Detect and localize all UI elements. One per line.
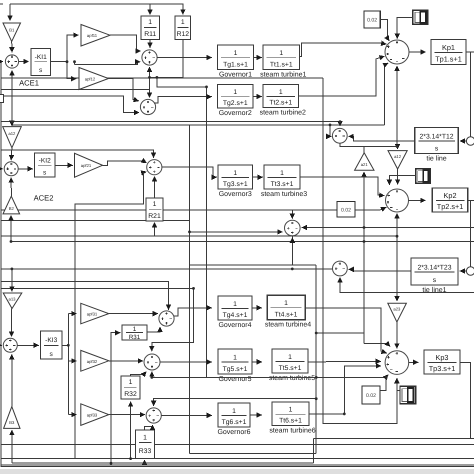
governor block Governor2	[218, 85, 254, 118]
wire R32 input from bus	[130, 402, 132, 459]
gain a21	[355, 153, 374, 171]
junction at 316.2,398.7	[315, 397, 318, 400]
gain a23	[388, 303, 407, 322]
svg-text:1: 1	[129, 379, 133, 386]
junction at 74.5,61.7	[73, 60, 76, 63]
svg-text:steam turbine2: steam turbine2	[260, 109, 306, 117]
wire bus y150.2 to sum unit3 top	[1, 150, 154, 158]
svg-text:Tp1.s+1: Tp1.s+1	[435, 54, 462, 63]
wire bus y77.9	[1, 77, 323, 79]
constant 0.02 load area3	[362, 386, 380, 404]
svg-text:-KI1: -KI1	[35, 54, 47, 61]
junction at 68.3,345.3	[67, 344, 70, 347]
droop block 1/R32	[121, 376, 140, 399]
svg-text:Tt1.s+1: Tt1.s+1	[270, 61, 293, 68]
bottom gray strip	[0, 469, 474, 474]
wire turbine4 output to sum3R	[305, 308, 387, 353]
svg-text:R32: R32	[124, 391, 137, 398]
wire Governor3 to turbine3	[253, 176, 263, 178]
wire bus y209.8	[1, 209, 381, 211]
svg-text:Governor3: Governor3	[219, 191, 252, 198]
svg-text:1: 1	[233, 89, 237, 96]
wire bus y124.9	[12, 124, 385, 126]
wire left edge vertical	[0, 62, 2, 467]
junction at 151.8,377.4	[150, 376, 153, 379]
sum junction unit1	[142, 50, 157, 65]
svg-text:Tg2.s+1: Tg2.s+1	[223, 100, 248, 107]
wire port to tie line1 block	[460, 270, 467, 272]
svg-text:1: 1	[279, 50, 283, 57]
wire bottom bus y453.6	[190, 453, 317, 455]
gain apf11	[81, 25, 110, 47]
sum junction area3 ACE	[3, 338, 17, 352]
svg-text:Tp2.s+1: Tp2.s+1	[437, 202, 464, 211]
wire left input sum3a	[0, 344, 3, 346]
wire bus y281.3 to sum4 top	[1, 281, 169, 310]
governor block Governor1	[218, 45, 254, 79]
wire right input summid y227.5	[302, 227, 474, 229]
junction at 156.9,77.4	[156, 76, 159, 79]
svg-text:1: 1	[289, 407, 293, 414]
droop block 1/R11	[141, 16, 160, 40]
wire tie feedback x397 up into sum1R bottom	[396, 66, 398, 146]
svg-text:1: 1	[284, 300, 288, 307]
wire tie-sum1 output down-right	[340, 143, 398, 146]
svg-text:-KI2: -KI2	[39, 157, 51, 164]
sum junction unit2	[140, 99, 155, 114]
sum junction tie flow 1	[332, 128, 347, 143]
svg-text:1: 1	[133, 326, 137, 333]
svg-text:1: 1	[288, 354, 292, 361]
wire R31 input	[111, 333, 120, 464]
wire a13 to sum3a	[11, 309, 13, 337]
wire 0.02 to sum1R	[380, 20, 389, 41]
sum junction tie flow 2	[333, 261, 348, 276]
wire R33 output to sum6	[145, 425, 153, 430]
svg-text:Tt6.s+1: Tt6.s+1	[279, 417, 302, 424]
wire a23 output to sum3R	[396, 322, 398, 349]
wire bus up into sum2R bottom	[396, 214, 398, 237]
svg-text:steam turbine1: steam turbine1	[260, 71, 306, 79]
wire arrow into R12	[182, 4, 184, 15]
wire vertical x313.5 bottom	[313, 438, 315, 463]
input port circle tie2	[466, 267, 474, 275]
svg-text:tie line: tie line	[426, 155, 446, 163]
svg-text:0.02: 0.02	[341, 207, 351, 213]
svg-text:2*3.14*T12: 2*3.14*T12	[420, 133, 454, 140]
wire scope tap to sum1R top	[397, 17, 413, 38]
wire port to tie line block	[460, 140, 467, 142]
junction at 316.2,377.4	[315, 376, 318, 379]
svg-text:apf11: apf11	[87, 33, 98, 38]
sum junction tie area2	[285, 220, 301, 236]
wire top feedback bus y4	[10, 3, 183, 5]
power system block Kp2/Tp2	[432, 188, 468, 212]
droop block 1/R21	[146, 198, 163, 221]
wire bottom bus y437.7	[314, 437, 474, 439]
junction at 11,241.5	[10, 240, 13, 243]
svg-text:R12: R12	[177, 31, 190, 38]
wire R11 to sum1b top	[149, 40, 151, 48]
svg-text:a23: a23	[393, 307, 401, 312]
junction at 330,124.9	[329, 124, 332, 127]
wire Governor2 to turbine2	[253, 96, 262, 98]
svg-text:Kp3: Kp3	[436, 353, 449, 362]
junction at 193.5,288.4	[192, 287, 195, 290]
governor block Governor3	[218, 165, 253, 198]
wire KI2 to apf21	[55, 164, 73, 166]
wire tie line1 output to tie-sum2	[349, 269, 411, 271]
gain apf33	[81, 404, 109, 426]
wire B2 output to sum2a	[10, 178, 12, 197]
svg-text:a12: a12	[8, 131, 16, 136]
power system block Kp1/Tp1	[431, 40, 466, 65]
wire sum3R to Kp3	[409, 361, 419, 363]
wire R12 down to sum1b bottom	[150, 40, 183, 78]
constant 0.02 load area1	[364, 11, 380, 28]
wire vertical x75 with top corner to sum3	[143, 171, 146, 174]
wire y398.7 into sum6 top	[154, 399, 317, 406]
junction at 364,227.5	[363, 226, 366, 229]
wire arrow into R11	[149, 4, 151, 15]
wire R31 output to sum4	[147, 327, 160, 332]
input port circle tie1	[466, 137, 474, 145]
scope tie1	[416, 169, 430, 184]
svg-text:B1: B1	[9, 28, 15, 33]
svg-text:Tg5.s+1: Tg5.s+1	[223, 366, 248, 373]
wire bus y95.8 into sum unit2	[1, 96, 140, 113]
svg-text:1: 1	[148, 19, 152, 26]
sum junction unit3	[147, 160, 162, 175]
governor block Governor4	[218, 296, 252, 329]
junction at 130.6,458.6	[129, 457, 132, 460]
wire bottom bus y444.7	[1, 444, 474, 446]
wire Governor6 to turbine6	[250, 414, 262, 416]
wire KI1 output split	[51, 61, 68, 63]
wire 0.02 area3 joins	[380, 378, 386, 391]
governor block Governor6	[217, 403, 250, 436]
svg-text:Governor1: Governor1	[219, 72, 252, 79]
svg-text:B3: B3	[9, 420, 15, 425]
junction at 11.9,268.9	[11, 268, 14, 271]
svg-text:R33: R33	[139, 448, 152, 455]
svg-text:Tg3.s+1: Tg3.s+1	[223, 181, 248, 188]
wire vertical x189.5	[189, 125, 191, 454]
svg-text:Tg1.s+1: Tg1.s+1	[223, 61, 248, 68]
sum junction area2 generation	[386, 189, 409, 212]
junction at 316.2,333	[315, 332, 318, 335]
wire vertical x206.5	[206, 87, 208, 378]
wire bottom bus y463.2	[12, 462, 314, 464]
svg-text:apf12: apf12	[85, 77, 96, 82]
wire bottom bus y466.4	[1, 465, 474, 467]
gain a13	[3, 293, 22, 309]
svg-text:R11: R11	[144, 31, 156, 38]
svg-text:ACE2: ACE2	[34, 194, 54, 203]
svg-text:Tt4.s+1: Tt4.s+1	[275, 311, 298, 318]
wire turbine5 output to sum3R	[308, 360, 381, 363]
wire y377.4 up into sum5 bottom	[151, 372, 153, 378]
svg-text:Tt3.s+1: Tt3.s+1	[271, 181, 294, 188]
gain apf31	[81, 303, 109, 324]
svg-text:steam turbine5: steam turbine5	[269, 374, 315, 382]
svg-text:1: 1	[279, 89, 283, 96]
gain B1	[3, 23, 21, 42]
wire summid output down and y264.8 link	[291, 236, 293, 265]
svg-text:apf32: apf32	[87, 359, 98, 364]
svg-text:1: 1	[181, 19, 185, 26]
wire R21 output up to sum3	[154, 177, 156, 199]
wire Governor1 to turbine1	[254, 57, 262, 59]
wire sum5 to Governor5	[160, 361, 212, 363]
svg-text:B2: B2	[9, 206, 15, 211]
wire bottom input summid	[291, 238, 293, 242]
wire bus y241.5 from B2 corner	[11, 241, 474, 243]
gain apf21	[75, 153, 103, 177]
wire Governor5 to turbine5	[252, 361, 262, 363]
wire sum2a to KI2	[18, 168, 33, 170]
integrator -KI3/s	[41, 331, 63, 359]
svg-text:a21: a21	[361, 162, 369, 167]
wire a12 output to sum2R	[397, 169, 399, 185]
sum junction area3 generation	[385, 351, 409, 375]
wire sum4 to Governor4	[174, 308, 212, 316]
tie line1 block 2*3.14*T23/s	[411, 258, 458, 294]
wire junction down to sum2 top	[149, 77, 151, 97]
sum junction unit5	[144, 354, 160, 370]
svg-text:0.02: 0.02	[367, 18, 377, 24]
wire arrow into a13	[11, 269, 13, 292]
governor block Governor5	[218, 349, 252, 383]
svg-text:Kp2: Kp2	[444, 191, 457, 200]
sum junction unit4	[159, 311, 174, 326]
gain a12 right	[388, 151, 407, 169]
wire apf32 to sum5	[109, 360, 143, 362]
wire R21 input from bus	[154, 223, 156, 237]
wire turbine6 output to sum3R	[309, 366, 381, 414]
svg-text:-KI3: -KI3	[45, 337, 57, 344]
junction at 292.3,268.9	[291, 268, 294, 271]
gain apf32	[81, 350, 109, 371]
wire sum2R to Kp2	[409, 199, 426, 201]
wire B1 to sum1	[11, 42, 13, 53]
wire Kp2 feedback to tie line1 input	[468, 199, 474, 201]
svg-text:0.02: 0.02	[366, 393, 376, 399]
wire bus y269.3 into tie-sum2 left	[1, 268, 333, 270]
junction at 344.3,413.9	[343, 413, 346, 416]
wire sum6 to Governor6	[161, 414, 212, 416]
scope area1	[413, 10, 428, 24]
wire a21 output up	[363, 146, 365, 153]
wire sum1R to Kp1	[409, 51, 426, 53]
wire KI1 to sum1b via y64.6	[75, 62, 141, 65]
svg-text:1: 1	[233, 170, 237, 177]
wire turbine3 output to sum2R	[300, 177, 384, 196]
wire sum1 to KI1	[19, 61, 29, 63]
svg-text:1: 1	[280, 170, 284, 177]
svg-text:steam turbine6: steam turbine6	[269, 427, 315, 435]
gain B3	[4, 407, 20, 429]
wire Kp3 feedback down to bus	[460, 362, 471, 438]
wire junction y86.9 to x206.5	[157, 77, 207, 87]
wire sum3 to Governor3	[162, 167, 217, 177]
wire KI3 output split to apf gains	[62, 344, 68, 346]
wire bus y89.5	[1, 89, 150, 91]
wire bus y220.7	[1, 220, 190, 222]
wire vertical x322.8 bus-to-sum3R loop	[323, 78, 397, 424]
scope area3	[400, 386, 416, 403]
svg-text:Tg6.s+1: Tg6.s+1	[222, 419, 247, 426]
turbine block steam turbine3	[261, 165, 307, 198]
wire turbine1 output to sum1R	[300, 43, 387, 56]
turbine block steam turbine6	[269, 402, 315, 435]
gain B2	[3, 196, 20, 214]
wire B3 output to sum3a	[11, 354, 13, 406]
wire scope2 tap	[389, 176, 416, 185]
power system block Kp3/Tp3	[424, 350, 460, 374]
wire into a23 from x397	[396, 236, 398, 301]
wire feedback y292.4 into tie-sum2 bottom	[340, 277, 474, 292]
wire left input sum1	[1, 61, 3, 63]
wire a12L to sum2a	[10, 148, 13, 160]
wire summid left input y231.9	[190, 231, 283, 233]
wire tie-sum1 left stair from bus	[330, 125, 331, 136]
integrator -KI2/s	[35, 153, 56, 177]
wire 0.02 area2 to sum2R	[355, 207, 386, 210]
wire apf11 to sum1b	[110, 35, 141, 51]
junction at 386,377.4	[385, 376, 388, 379]
svg-text:steam turbine4: steam turbine4	[265, 321, 311, 329]
junction at 149.5,77.4	[148, 76, 151, 79]
wire arrow into B1 top	[9, 4, 11, 21]
svg-text:apf33: apf33	[87, 413, 98, 418]
droop block 1/R12	[175, 16, 191, 40]
wire bottom input sum1 / down to a12L	[11, 70, 13, 125]
wire apf33 to sum6	[109, 414, 145, 416]
svg-text:1: 1	[232, 408, 236, 415]
svg-text:1: 1	[143, 434, 147, 441]
svg-text:Tt5.s+1: Tt5.s+1	[279, 365, 302, 372]
droop block 1/R33	[136, 430, 155, 459]
wire left input sum2a	[1, 168, 3, 170]
svg-text:Kp1: Kp1	[442, 43, 455, 52]
gain apf12	[79, 68, 109, 90]
wire vertical x316.2	[315, 265, 317, 454]
junction at 397,236.2	[396, 235, 399, 238]
svg-text:apf31: apf31	[87, 312, 98, 317]
svg-text:1: 1	[233, 354, 237, 361]
wire turbine2 output to sum1R	[299, 56, 385, 96]
svg-text:Governor2: Governor2	[219, 110, 252, 117]
wire R32 output to sum5	[131, 372, 147, 376]
turbine block steam turbine4	[265, 295, 311, 329]
turbine block steam turbine5	[269, 349, 315, 382]
wire apf31 to sum4	[109, 313, 158, 315]
wire bottom bus y458.6	[1, 458, 474, 460]
svg-text:Governor4: Governor4	[218, 322, 251, 329]
turbine block steam turbine1	[260, 45, 306, 79]
wire Kp1 feedback to tie line input	[466, 51, 474, 53]
wire a21 input line down to sum3R	[363, 172, 365, 344]
svg-text:a12: a12	[394, 154, 402, 159]
svg-text:R31: R31	[129, 334, 141, 341]
svg-text:Governor6: Governor6	[217, 429, 250, 436]
wire bus y236.2	[1, 235, 398, 237]
turbine block steam turbine2	[260, 85, 306, 117]
junction at 206.5,86.9	[205, 86, 208, 89]
wire sum1b to Governor1	[157, 57, 212, 59]
sum junction area2 ACE	[4, 162, 18, 176]
wire B2 input from bus y242.5	[10, 216, 12, 242]
junction at 144.5,463.2	[143, 462, 146, 465]
wire sum3a to KI3	[17, 344, 38, 346]
fragment left edge small block	[0, 95, 4, 103]
junction at 364,241.5	[363, 240, 366, 243]
wire scope3 tap	[397, 390, 400, 392]
sum junction area1 ACE	[5, 55, 18, 68]
integrator -KI1/s	[31, 49, 51, 76]
wire apf21 to sum3	[103, 161, 147, 166]
svg-text:apf21: apf21	[81, 163, 92, 168]
svg-text:s: s	[433, 277, 437, 284]
fragment top-left	[0, 3, 3, 5]
svg-text:steam turbine3: steam turbine3	[261, 190, 307, 198]
wire bottom bus y464.9	[1, 464, 474, 466]
droop block 1/R31	[122, 325, 147, 341]
tie line block 2*3.14*T12/s	[415, 128, 459, 163]
wire into a12 gain	[396, 146, 398, 149]
svg-text:1: 1	[153, 201, 157, 208]
wire apf12 to sum2	[109, 79, 139, 101]
wire arrow into a12L	[11, 122, 13, 126]
junction at 189.5,231.9	[188, 231, 191, 234]
sum junction unit6	[146, 408, 161, 423]
svg-text:s: s	[435, 145, 439, 152]
wire tie line output to tie-sum1	[349, 136, 415, 141]
svg-text:1: 1	[233, 301, 237, 308]
constant 0.02 load area2	[337, 202, 355, 218]
wire Governor4 to turbine4	[252, 307, 262, 309]
wire B3 input from bus y463	[11, 430, 13, 463]
sum junction area1 generation	[385, 40, 409, 64]
wire top input summid from bus y209.8	[291, 210, 293, 219]
svg-text:a13: a13	[9, 297, 17, 302]
junction at 111,463.2	[110, 462, 113, 465]
wire vertical x193.5 to sum5 top	[152, 288, 194, 351]
wire sum2 to Governor2	[154, 97, 212, 103]
wire branch y333	[316, 332, 364, 334]
wire bus y121.7 to tie-sum1 top	[1, 122, 340, 127]
svg-text:tie line1: tie line1	[422, 286, 446, 294]
svg-text:Tt2.s+1: Tt2.s+1	[269, 99, 292, 106]
junction at 67,61.7	[66, 60, 69, 63]
junction at 397,146.3	[396, 145, 399, 148]
svg-text:Tg4.s+1: Tg4.s+1	[223, 312, 248, 319]
junction at 340,121.7	[339, 120, 342, 123]
wire y377.4 into sum3R bottom-left	[152, 375, 388, 378]
gain a12 left	[3, 127, 22, 148]
svg-text:Tp3.s+1: Tp3.s+1	[429, 364, 456, 373]
wire tie feedback up into sum1R	[385, 63, 389, 125]
svg-text:1: 1	[234, 50, 238, 57]
wire R33 input from bus	[144, 460, 146, 463]
svg-text:ACE1: ACE1	[19, 79, 39, 88]
svg-text:R21: R21	[148, 213, 161, 220]
svg-text:2*3.14*T23: 2*3.14*T23	[417, 264, 451, 271]
junction at 12,121.7	[11, 120, 14, 123]
wire bus y288.4	[1, 287, 194, 289]
